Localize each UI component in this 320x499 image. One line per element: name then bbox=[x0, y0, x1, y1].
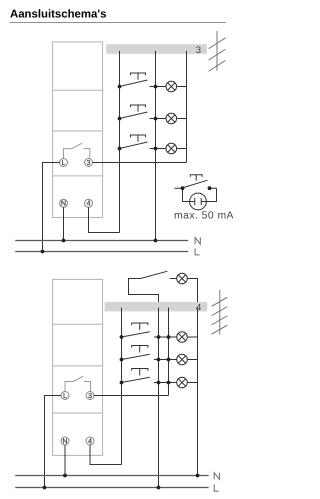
svg-text:Aansluitschema's: Aansluitschema's bbox=[10, 9, 106, 21]
svg-text:N: N bbox=[62, 436, 67, 445]
svg-text:max. 50 mA: max. 50 mA bbox=[174, 211, 234, 222]
svg-text:3: 3 bbox=[87, 158, 91, 167]
svg-text:L: L bbox=[62, 158, 66, 167]
svg-text:4: 4 bbox=[88, 436, 92, 445]
svg-text:N: N bbox=[61, 199, 66, 208]
svg-text:3: 3 bbox=[196, 45, 201, 56]
svg-text:4: 4 bbox=[196, 303, 201, 314]
svg-text:3: 3 bbox=[88, 391, 92, 400]
svg-text:L: L bbox=[63, 391, 67, 400]
svg-text:4: 4 bbox=[87, 199, 91, 208]
